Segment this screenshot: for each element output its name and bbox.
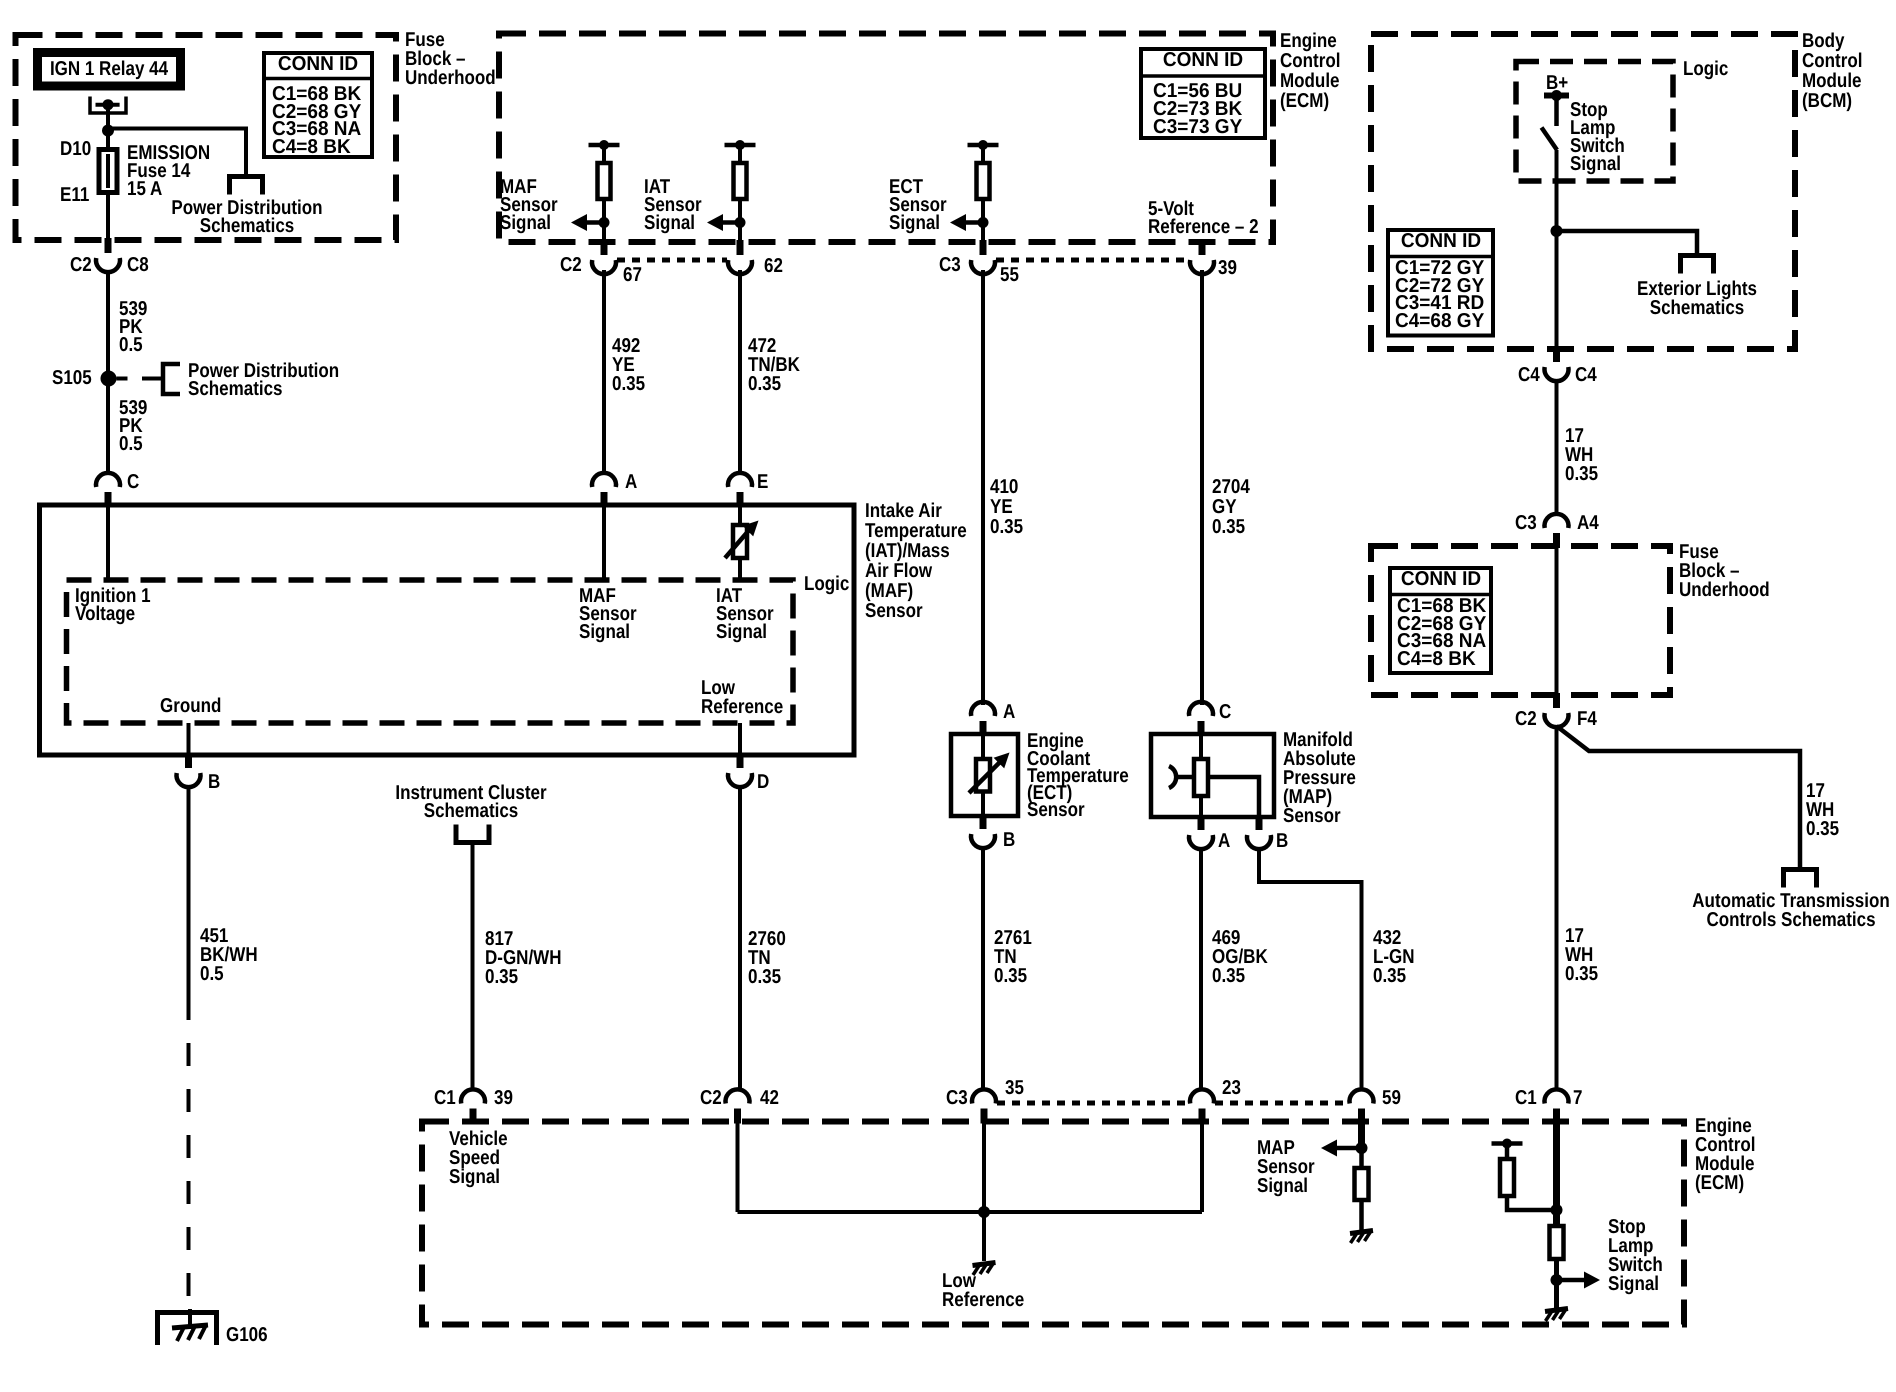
MAP sensor signal branch (pin 59) — [1358, 1122, 1365, 1151]
stop lamp signal arrow — [1557, 1278, 1587, 1283]
junction (BCM stop lamp signal) — [1551, 225, 1563, 237]
label: 7 — [1573, 1089, 1582, 1108]
branch to exterior lights reference — [1557, 231, 1698, 257]
junction (low reference) — [978, 1206, 990, 1218]
connector C3 / 35 (ECM bottom) — [972, 1089, 996, 1103]
label: Manifold Absolute Pressure (MAP) Sensor — [1283, 731, 1356, 826]
connector C2 / 67 (ECM) — [601, 240, 608, 255]
label: C2 — [1515, 710, 1537, 729]
connector 62 (ECM) — [737, 240, 744, 255]
MAF signal pull-up: supply terminal — [589, 143, 620, 148]
label: 17 WH 0.35 — [1806, 782, 1839, 839]
stop lamp switch contact (open) — [1542, 128, 1558, 151]
label: 469 OG/BK 0.35 — [1212, 929, 1268, 986]
label: 432 L-GN 0.35 — [1373, 929, 1415, 986]
junction (stop lamp signal) — [1551, 1274, 1563, 1286]
label: EMISSION Fuse 14 15 A — [127, 144, 210, 198]
label: 539 PK 0.5 — [119, 300, 147, 354]
label: Body Control Module (BCM) — [1802, 31, 1862, 111]
wire relay to junction — [106, 110, 110, 131]
label: A4 — [1577, 514, 1599, 533]
label: C1=72 GY C2=72 GY C3=41 RD C4=68 GY — [1395, 260, 1484, 330]
label: 472 TN/BK 0.35 — [748, 337, 800, 394]
label: E11 — [60, 186, 89, 205]
label: Power Distribution Schematics — [171, 199, 322, 235]
connector mating line 55-39 (dotted) — [996, 258, 1189, 263]
label: 35 — [1005, 1079, 1024, 1098]
label: Engine Coolant Temperature (ECT) Sensor — [1027, 733, 1129, 819]
connector C3 / 55 (ECM) — [980, 240, 987, 255]
label: Ground — [160, 697, 221, 716]
B+ terminal — [1544, 93, 1569, 99]
label: 410 YE 0.35 — [990, 477, 1023, 537]
label: C1=68 BK C2=68 GY C3=68 NA C4=8 BK — [272, 86, 361, 156]
label: Stop Lamp Switch Signal — [1570, 101, 1625, 173]
label: CONN ID — [278, 55, 358, 74]
label: Low Reference — [701, 679, 783, 717]
connector mating line 35-23-59 (dotted) — [997, 1101, 1189, 1106]
label: Fuse Block – Underhood — [405, 31, 496, 88]
label: A — [625, 473, 637, 492]
label: 2760 TN 0.35 — [748, 930, 786, 987]
wire ECT resistor to connector — [981, 200, 985, 242]
connector C4 / C4 (BCM) — [1553, 347, 1560, 362]
label: C1=68 BK C2=68 GY C3=68 NA C4=8 BK — [1397, 598, 1486, 668]
label: C1 — [1515, 1089, 1537, 1108]
wire 17 WH 0.35 (BCM to fuse block) — [1555, 379, 1559, 516]
wire 539 PK 0.5 (lower) — [106, 386, 110, 475]
IAT signal pull-up: supply terminal — [725, 143, 756, 148]
connector mating line 67-62 (dotted) — [617, 258, 727, 263]
label: C2 — [560, 256, 582, 275]
reference bracket - power distribution schematics — [230, 177, 263, 195]
branch wire to automatic transmission reference — [1557, 726, 1801, 871]
fuse block - underhood (dashed enclosure, right) — [1371, 546, 1670, 695]
MAP sensor (enclosure) — [1151, 734, 1274, 817]
label: 2761 TN 0.35 — [994, 929, 1032, 986]
label: G106 — [226, 1326, 268, 1345]
wire switch to junction — [1555, 150, 1559, 231]
splice S105 — [101, 371, 117, 387]
IAT sensor signal junction and arrow — [735, 217, 746, 228]
body control module BCM (dashed enclosure) — [1371, 34, 1795, 349]
connector B (sensor ground out) — [185, 753, 192, 768]
wire 469 OG/BK 0.35 — [1199, 847, 1203, 1092]
label: S105 — [52, 369, 92, 388]
label: Vehicle Speed Signal — [449, 1130, 508, 1187]
label: 2704 GY 0.35 — [1212, 477, 1250, 537]
MAP sensing element (resistor) — [1199, 734, 1203, 761]
connector A (ECT sensor) — [971, 702, 995, 716]
wire MAF signal inside sensor — [602, 505, 606, 580]
ground G106 — [158, 1313, 217, 1346]
connector C2 / F4 (fuse block) — [1553, 693, 1560, 708]
label: Logic — [1683, 60, 1728, 79]
label: 17 WH 0.35 — [1565, 927, 1598, 984]
label: A — [1218, 832, 1230, 851]
label: MAF Sensor Signal — [579, 587, 637, 641]
IAT/MAF sensor (solid enclosure) — [40, 505, 855, 755]
ECT sensor signal junction and arrow — [978, 217, 989, 228]
label: 539 PK 0.5 — [119, 399, 147, 453]
wire junction to fuse D10 — [106, 131, 110, 150]
B+ terminal (ECM stop lamp pull-up) — [1492, 1141, 1523, 1146]
label: C4 — [1575, 366, 1597, 385]
wire junction to BCM edge — [1555, 231, 1559, 349]
MAP internal output wire — [1210, 777, 1260, 817]
conn-id table (ECM) — [1141, 49, 1265, 138]
wire 17 WH 0.35 (to ECM) — [1555, 725, 1559, 1092]
wire MAF resistor to connector — [602, 200, 606, 242]
conn-id table (fuse block 1) — [264, 53, 372, 157]
low reference bus wire (42 to 23) — [736, 1122, 740, 1213]
label: A — [1003, 703, 1015, 722]
fuse block - underhood (dashed enclosure) — [16, 35, 397, 240]
label: Fuse Block – Underhood — [1679, 543, 1770, 600]
label: Ignition 1 Voltage — [75, 587, 151, 623]
ground wire inside sensor — [187, 723, 191, 755]
wire 817 D-GN/WH 0.35 — [471, 843, 475, 1092]
connector C2 / C8 (fuse block to harness) — [105, 238, 112, 253]
fuse F14 EMISSION 15 A — [106, 149, 110, 240]
wire ignition 1 voltage into sensor — [106, 505, 110, 580]
connector D (low reference out) — [737, 753, 744, 768]
wire 451 BK/WH 0.5 to ground — [187, 785, 191, 997]
engine control module ECM (dashed enclosure, bottom) — [422, 1122, 1684, 1325]
label: Logic — [804, 575, 849, 594]
wire 539 PK 0.5 (upper) — [106, 270, 110, 372]
label: Stop Lamp Switch Signal — [1608, 1218, 1663, 1294]
conn-id table (fuse block 2) — [1390, 568, 1491, 673]
label: B — [1003, 831, 1015, 850]
ECT sensor (enclosure) — [951, 734, 1018, 816]
label: 39 — [494, 1089, 513, 1108]
connector 59 (ECM bottom) — [1350, 1089, 1374, 1103]
label: B — [1276, 832, 1288, 851]
reference bracket - instrument cluster schematics — [456, 825, 489, 843]
MAF signal pull-up resistor — [602, 145, 606, 165]
label: 23 — [1222, 1079, 1241, 1098]
label: C8 — [127, 256, 149, 275]
wire through fuse block — [1555, 546, 1559, 695]
reference bracket - automatic transmission controls schematics — [1784, 870, 1817, 888]
wire IAT resistor to connector — [738, 200, 742, 242]
label: Engine Control Module (ECM) — [1280, 31, 1340, 111]
label: E — [757, 473, 768, 492]
ground - stop lamp divider — [1545, 1309, 1568, 1312]
label: C — [127, 473, 139, 492]
label: D10 — [60, 140, 91, 159]
label: C3 — [939, 256, 961, 275]
reference bracket - exterior lights schematics — [1681, 256, 1714, 274]
stop lamp signal wire inside ECM (pin 7) — [1553, 1122, 1560, 1228]
BCM logic (dashed box) — [1516, 62, 1673, 182]
connector C1 / 7 (ECM bottom) — [1545, 1089, 1569, 1103]
label: 55 — [1000, 266, 1019, 285]
S105 reference tick and bracket - power distribution schematics — [117, 377, 128, 381]
label: IAT Sensor Signal — [644, 178, 702, 232]
label: CONN ID — [1400, 570, 1480, 589]
wire 472 TN/BK 0.35 — [738, 270, 742, 475]
sensor logic (dashed box) — [67, 580, 794, 723]
label: C2 — [70, 256, 92, 275]
wire 432 L-GN 0.35 — [1259, 847, 1362, 1092]
low reference wire inside sensor — [738, 723, 742, 755]
label: 59 — [1382, 1089, 1401, 1108]
label: Engine Control Module (ECM) — [1695, 1117, 1755, 1193]
label: Exterior Lights Schematics — [1637, 280, 1757, 318]
connector C (to IAT/MAF sensor) — [96, 473, 120, 487]
MAP pressure port symbol — [1169, 766, 1176, 788]
label: 451 BK/WH 0.5 — [200, 927, 258, 984]
ECT signal pull-up: supply terminal — [968, 143, 999, 148]
ECT signal pull-up resistor — [981, 145, 985, 165]
label: B — [208, 773, 220, 792]
label: 39 — [1218, 259, 1237, 278]
label: C2 — [700, 1089, 722, 1108]
IAT thermistor (variable resistor) — [738, 505, 742, 527]
label: Low Reference — [942, 1272, 1024, 1310]
label: 492 YE 0.35 — [612, 337, 645, 394]
connector C (MAP sensor) — [1189, 702, 1213, 716]
label: C — [1219, 703, 1231, 722]
connector 39 (ECM) — [1199, 240, 1206, 255]
wire 2704 GY 0.35 — [1200, 270, 1204, 705]
wire 2761 TN 0.35 — [981, 846, 985, 1092]
label: 17 WH 0.35 — [1565, 427, 1598, 484]
label: Automatic Transmission Controls Schematics — [1692, 892, 1889, 930]
label: C1=56 BU C2=73 BK C3=73 GY — [1153, 82, 1242, 136]
connector A (MAF signal into sensor) — [592, 473, 616, 487]
connector E (IAT signal into sensor) — [728, 473, 752, 487]
label: C3 — [946, 1089, 968, 1108]
ground - low reference — [973, 1263, 996, 1266]
label: 67 — [623, 266, 642, 285]
label: Power Distribution Schematics — [188, 362, 339, 398]
connector C1 / 39 (ECM bottom) — [461, 1089, 485, 1103]
label: MAP Sensor Signal — [1257, 1139, 1315, 1196]
stop lamp pull-up resistor — [1505, 1144, 1510, 1161]
connector 23 (ECM bottom) — [1190, 1089, 1214, 1103]
MAF sensor signal junction and arrow — [599, 217, 610, 228]
IAT signal pull-up resistor — [738, 145, 742, 165]
junction (relay output) — [102, 125, 114, 137]
label: D — [757, 773, 769, 792]
label: CONN ID — [1400, 232, 1480, 251]
connector C3 / A4 (fuse block) — [1545, 514, 1569, 528]
relay contact symbol — [90, 97, 126, 114]
connector B (MAP sensor) — [1256, 815, 1263, 830]
junction (stop lamp divider top) — [1551, 1204, 1563, 1216]
label: CONN ID — [1163, 51, 1243, 70]
connector C2 / 42 (ECM bottom) — [726, 1089, 750, 1103]
label: Intake Air Temperature (IAT)/Mass Air Flow (MAF) Sensor — [865, 501, 967, 621]
label: 42 — [760, 1089, 779, 1108]
stop lamp pull-down resistor — [1550, 1226, 1564, 1259]
label: IGN 1 Relay 44 — [50, 60, 168, 79]
label: C3 — [1515, 514, 1537, 533]
wire branch to power distribution reference — [108, 129, 246, 175]
relay IGN 1 Relay 44 (label box) — [38, 53, 181, 87]
label: C1 — [434, 1089, 456, 1108]
connector B (ECT sensor) — [980, 814, 987, 829]
wire 492 YE 0.35 — [602, 270, 606, 475]
wire 2760 TN 0.35 — [738, 785, 742, 1092]
label: MAF Sensor Signal — [500, 178, 558, 232]
ECT thermistor (variable resistor) — [981, 734, 985, 761]
label: Instrument Cluster Schematics — [395, 784, 546, 820]
label: 5-Volt Reference – 2 — [1148, 200, 1259, 236]
wire 410 YE 0.35 — [981, 270, 985, 705]
conn-id table (BCM) — [1388, 230, 1493, 336]
ground - MAP signal — [1350, 1231, 1373, 1234]
label: IAT Sensor Signal — [716, 587, 774, 641]
label: ECT Sensor Signal — [889, 178, 947, 232]
MAP signal pull-down resistor — [1359, 1148, 1364, 1170]
label: 817 D-GN/WH 0.35 — [485, 930, 561, 987]
label: B+ — [1546, 74, 1568, 93]
connector A (MAP sensor) — [1198, 815, 1205, 830]
label: F4 — [1577, 710, 1597, 729]
label: C4 — [1518, 366, 1540, 385]
label: 62 — [764, 257, 783, 276]
engine control module ECM (dashed enclosure, top) — [499, 34, 1273, 243]
